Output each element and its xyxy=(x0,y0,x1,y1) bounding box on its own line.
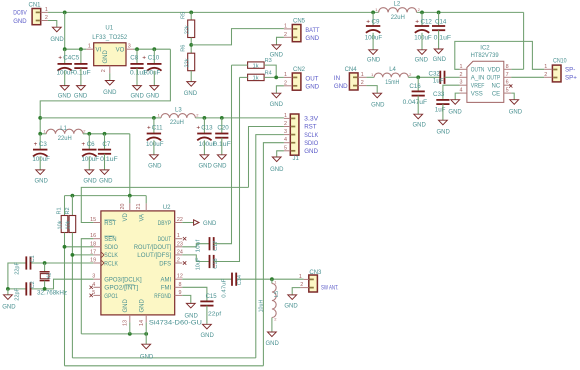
svg-text:LOUT/[DFS]: LOUT/[DFS] xyxy=(137,253,171,259)
svg-text:GND: GND xyxy=(99,179,113,185)
junction rail-R5 xyxy=(189,11,193,15)
svg-text:HT82V739: HT82V739 xyxy=(471,52,500,59)
wire L4 to C32 xyxy=(408,76,440,78)
junction X1 top xyxy=(43,261,47,265)
junction C4 xyxy=(63,47,67,51)
svg-text:1: 1 xyxy=(361,72,364,78)
junction rail-C9 xyxy=(371,11,375,15)
wire OUTP to CN10 xyxy=(511,76,544,78)
tuner U2 Si4734-D60-GU xyxy=(101,211,175,315)
svg-text:0.1uF: 0.1uF xyxy=(73,70,91,77)
pin U2-5 GPO1 xyxy=(93,294,101,296)
pin IC2-4 xyxy=(460,92,467,94)
wire down to U1 input xyxy=(64,12,66,49)
svg-text:2: 2 xyxy=(284,80,287,86)
svg-text:SP+: SP+ xyxy=(565,75,577,82)
junction C8 xyxy=(135,47,139,51)
wire SCLK bottom run xyxy=(72,357,255,359)
svg-text:DFS: DFS xyxy=(159,261,171,267)
resistor R6 xyxy=(188,53,195,70)
wire L1 out rail xyxy=(83,133,130,135)
ground C33 xyxy=(439,120,448,125)
svg-text:IN: IN xyxy=(334,75,340,82)
pin CN5-1 xyxy=(284,28,292,30)
ground DBYP right xyxy=(194,220,199,225)
svg-text:L3: L3 xyxy=(175,108,182,114)
svg-text:L5: L5 xyxy=(274,291,280,297)
svg-text:GND: GND xyxy=(284,304,298,310)
svg-text:15mH: 15mH xyxy=(385,79,399,86)
wire R4 right to CN2 xyxy=(264,76,284,78)
capacitor C7 xyxy=(104,134,106,150)
svg-text:CN2: CN2 xyxy=(293,67,306,73)
svg-text:C11: C11 xyxy=(152,124,163,131)
svg-text:GND: GND xyxy=(103,90,117,96)
svg-text:1: 1 xyxy=(177,233,180,239)
svg-text:C17: C17 xyxy=(213,241,219,251)
svg-text:C2: C2 xyxy=(30,281,36,288)
wire CN2-2 to gnd xyxy=(276,86,284,93)
svg-text:22: 22 xyxy=(177,217,183,223)
wire to gnd crystal xyxy=(7,289,9,295)
wire VA drop xyxy=(145,196,147,204)
junction VD xyxy=(128,194,132,198)
svg-text:GND: GND xyxy=(35,179,49,185)
svg-text:R2: R2 xyxy=(65,207,71,214)
svg-text:0.47uF: 0.47uF xyxy=(221,278,227,298)
svg-text:100uF: 100uF xyxy=(146,141,164,148)
pin CN3-1 xyxy=(304,278,309,280)
svg-text:+: + xyxy=(34,141,38,148)
svg-text:OUTN: OUTN xyxy=(471,68,485,74)
wire C32 to A_IN xyxy=(445,76,460,78)
svg-text:1k: 1k xyxy=(253,63,259,69)
capacitor C12 xyxy=(421,12,423,26)
wire C18 to R4 xyxy=(214,77,240,261)
capacitor C5 xyxy=(80,49,82,64)
wire SDIO from J1-4 xyxy=(263,143,284,366)
pin U2-9 RFGND xyxy=(175,294,183,296)
pin U2-18 SDIO xyxy=(93,246,101,248)
svg-text:14: 14 xyxy=(139,320,145,326)
capacitor C10 xyxy=(153,49,155,64)
svg-text:VI: VI xyxy=(96,47,102,53)
svg-text:8: 8 xyxy=(179,282,182,288)
pin U2-2 DFS xyxy=(175,262,183,264)
svg-text:4: 4 xyxy=(460,88,463,94)
junction R2 top xyxy=(71,194,75,198)
ground C7 xyxy=(100,170,109,175)
svg-text:GND: GND xyxy=(50,37,64,43)
svg-text:GND: GND xyxy=(201,333,215,339)
pin U2-21 VA xyxy=(145,203,147,211)
pin U2-4 GPO2 xyxy=(93,286,101,288)
wire 3.3V feed loop xyxy=(40,49,170,134)
wire VREF to C33 xyxy=(443,85,460,99)
pin U2-14 GND xyxy=(145,315,147,323)
svg-text:C3: C3 xyxy=(39,141,47,148)
pin CN3-2 xyxy=(300,287,308,289)
ground CN3 xyxy=(288,295,297,300)
svg-text:C5: C5 xyxy=(71,55,79,62)
junction C16 xyxy=(416,75,420,79)
svg-text:Si4734-D60-GU: Si4734-D60-GU xyxy=(149,319,202,326)
ground CN1 xyxy=(52,27,61,32)
capacitor C18 xyxy=(209,255,211,268)
junction rail-C14 xyxy=(437,11,441,15)
ground C3 xyxy=(36,170,45,175)
ground CE xyxy=(510,100,519,105)
wire CN5-2 to gnd xyxy=(277,37,284,45)
pin U1-3 xyxy=(126,48,134,50)
svg-text:GND: GND xyxy=(139,299,145,313)
svg-text:RCLK: RCLK xyxy=(104,261,118,267)
ground L5 xyxy=(268,332,277,337)
svg-text:GND: GND xyxy=(433,57,447,63)
svg-text:GND: GND xyxy=(213,164,227,170)
svg-text:SP-: SP- xyxy=(565,67,575,74)
svg-text:DBYP: DBYP xyxy=(158,221,172,227)
pin U2-3 GPO3 xyxy=(93,278,101,280)
junction rail-U1 xyxy=(63,11,67,15)
svg-text:GND: GND xyxy=(304,148,318,155)
wire to gnd arrow xyxy=(145,334,147,344)
capacitor C11 xyxy=(153,118,155,134)
svg-text:22uH: 22uH xyxy=(391,14,405,21)
wire CE to gnd xyxy=(511,93,514,100)
pin IC2-1 xyxy=(460,68,467,70)
wire U2 gnd bus xyxy=(81,333,146,335)
pin U1-2 xyxy=(109,66,111,74)
wire CN4-1 to L4 xyxy=(366,76,374,78)
svg-text:1: 1 xyxy=(284,23,287,29)
svg-text:R1: R1 xyxy=(57,207,63,214)
svg-text:10uF: 10uF xyxy=(195,257,201,270)
pin CN2-2 xyxy=(284,85,292,87)
svg-text:22k: 22k xyxy=(184,58,190,67)
svg-text:GND: GND xyxy=(305,84,319,91)
capacitor C16 xyxy=(412,90,425,92)
wire 3.3V node rail xyxy=(65,195,147,197)
pin U2-24 LOUT xyxy=(175,254,183,256)
svg-text:GND: GND xyxy=(184,91,198,97)
wire R2 bottom to SCLK xyxy=(71,233,73,358)
svg-text:C20: C20 xyxy=(217,124,229,131)
svg-text:22uH: 22uH xyxy=(58,135,72,142)
wire C17 to R3 xyxy=(214,65,232,244)
pin J1-5 xyxy=(284,150,290,152)
svg-text:C33: C33 xyxy=(433,91,445,98)
ground crystal xyxy=(4,295,13,300)
svg-text:CN4: CN4 xyxy=(345,67,358,73)
junction divider tap xyxy=(189,43,193,47)
wire R6 gnd xyxy=(190,71,192,82)
wire RST to U2 xyxy=(81,187,248,222)
pin CN4-2 xyxy=(358,85,366,87)
svg-text:GND: GND xyxy=(83,179,97,185)
svg-text:GND: GND xyxy=(146,94,160,100)
ground C16 xyxy=(414,114,423,119)
svg-text:1: 1 xyxy=(88,43,91,49)
resistor R3 xyxy=(248,62,265,68)
wire FMI to C15 xyxy=(182,287,207,300)
svg-text:GPO2/[INT]: GPO2/[INT] xyxy=(104,286,138,292)
svg-text:5: 5 xyxy=(506,88,509,94)
pin IC2-5 xyxy=(504,92,511,94)
wire U1 input rail xyxy=(65,48,87,50)
junction C11 xyxy=(152,116,156,120)
pin IC2-8 xyxy=(504,68,511,70)
junction L3 tap xyxy=(38,116,42,120)
svg-text:GND: GND xyxy=(74,94,88,100)
svg-text:SCLK: SCLK xyxy=(304,132,319,139)
svg-text:IC2: IC2 xyxy=(480,46,490,52)
wire SEN down xyxy=(81,239,93,334)
wire C16 down xyxy=(417,77,419,91)
pin U2-22 DBYP xyxy=(175,222,183,224)
svg-text:20: 20 xyxy=(120,204,126,210)
wire AMI line xyxy=(182,278,232,280)
svg-text:CN10: CN10 xyxy=(553,59,567,65)
svg-text:C15: C15 xyxy=(206,294,218,300)
svg-text:GND: GND xyxy=(270,167,284,173)
capacitor C4 xyxy=(64,49,66,64)
pin U2-13 GND xyxy=(129,315,131,323)
svg-text:21: 21 xyxy=(136,204,142,210)
ground R6 xyxy=(187,82,196,87)
svg-text:GND: GND xyxy=(148,164,162,170)
svg-text:RST: RST xyxy=(104,221,116,227)
svg-text:RFGND: RFGND xyxy=(154,294,171,300)
svg-text:13: 13 xyxy=(123,320,129,326)
svg-text:10k: 10k xyxy=(66,220,72,229)
svg-text:C12: C12 xyxy=(421,19,433,26)
svg-text:GND: GND xyxy=(334,83,348,90)
wire L3 rail right to J1 xyxy=(195,117,284,119)
junction C5 xyxy=(79,47,83,51)
svg-text:32.768kHz: 32.768kHz xyxy=(37,290,67,297)
svg-text:1: 1 xyxy=(284,72,287,78)
pin CN10-1 xyxy=(544,68,552,70)
ground CN2 xyxy=(272,93,281,98)
wire CN3-2 to gnd xyxy=(292,288,300,295)
svg-text:VSS: VSS xyxy=(471,91,483,97)
svg-text:2: 2 xyxy=(544,72,547,78)
svg-text:GND: GND xyxy=(367,57,381,63)
svg-text:GND: GND xyxy=(131,94,145,100)
pin CN1-1 xyxy=(41,11,48,13)
svg-text:LF33_TO252: LF33_TO252 xyxy=(92,34,128,41)
svg-text:GND: GND xyxy=(270,102,284,108)
wire R1 bottom to SDIO xyxy=(64,233,66,366)
inductor L3 xyxy=(161,114,195,118)
svg-text:9: 9 xyxy=(179,290,182,296)
wire tap to CN5 xyxy=(191,29,284,45)
capacitor C32 xyxy=(439,71,441,84)
wire VSS to gnd xyxy=(455,93,459,100)
svg-text:NC: NC xyxy=(492,83,501,89)
connector CN2 xyxy=(292,73,301,90)
svg-text:2: 2 xyxy=(460,72,463,78)
svg-text:C16: C16 xyxy=(409,83,421,90)
wire VDD to rail xyxy=(511,68,523,70)
ground CN4 xyxy=(373,93,382,98)
svg-text:GPO3/[DCLK]: GPO3/[DCLK] xyxy=(104,278,142,284)
svg-text:C8: C8 xyxy=(130,55,138,62)
svg-text:SCLK: SCLK xyxy=(104,253,118,259)
svg-text:R6: R6 xyxy=(180,45,186,52)
ground C8 xyxy=(133,86,142,91)
pin CN10-2 xyxy=(544,76,552,78)
inductor L1 xyxy=(40,133,46,135)
svg-text:SDIO: SDIO xyxy=(104,245,118,251)
svg-text:X1: X1 xyxy=(46,273,52,280)
svg-text:1: 1 xyxy=(544,64,547,70)
ground C9 xyxy=(369,50,378,55)
wire U1 gnd xyxy=(109,73,111,80)
wire L5 to gnd xyxy=(271,318,273,333)
svg-text:GND: GND xyxy=(199,164,213,170)
capacitor C33 xyxy=(436,99,449,101)
pin J1-4 xyxy=(284,142,290,144)
svg-text:BATT: BATT xyxy=(305,27,319,34)
svg-text:7: 7 xyxy=(506,72,509,78)
svg-text:0.1uF: 0.1uF xyxy=(100,156,118,163)
svg-text:GND: GND xyxy=(266,341,280,347)
svg-text:GND: GND xyxy=(448,109,462,115)
capacitor C15 xyxy=(200,300,213,302)
svg-text:GND: GND xyxy=(123,299,129,313)
junction L5 xyxy=(270,277,274,281)
svg-text:3.3V: 3.3V xyxy=(304,116,319,123)
wire DBYP to gnd xyxy=(182,222,193,224)
ground C12 xyxy=(418,50,427,55)
svg-text:SEN: SEN xyxy=(104,237,116,243)
svg-text:GPO1: GPO1 xyxy=(104,294,118,300)
capacitor C9 xyxy=(372,12,374,26)
wire 6V rail right of L2 xyxy=(417,11,524,13)
ground C5 xyxy=(77,86,86,91)
svg-text:2: 2 xyxy=(300,282,303,288)
svg-text:C18: C18 xyxy=(213,258,219,268)
capacitor C13 xyxy=(203,118,205,134)
wire ROUT to C17 xyxy=(182,244,209,247)
pin U2-23 ROUT xyxy=(175,246,183,248)
inductor L4 xyxy=(374,73,408,77)
svg-text:22pF: 22pF xyxy=(14,287,20,300)
wire SCLK to U2 xyxy=(72,254,93,256)
connector CN3 xyxy=(309,275,318,292)
capacitor C2 xyxy=(25,282,27,295)
wire C2 row xyxy=(8,288,26,290)
svg-text:GND: GND xyxy=(305,35,319,42)
capacitor C6 xyxy=(88,134,90,150)
connector CN4 xyxy=(349,73,358,90)
pin U2-16 SEN xyxy=(93,238,101,240)
svg-text:DOUT: DOUT xyxy=(158,237,172,243)
junction C10 xyxy=(152,47,156,51)
wire R1 top xyxy=(64,196,66,216)
wire RFGND to gnd xyxy=(182,295,191,303)
svg-text:FMI: FMI xyxy=(161,286,172,292)
svg-text:10k: 10k xyxy=(58,220,64,229)
wire SDIO to U2 xyxy=(65,246,94,248)
svg-text:C32: C32 xyxy=(429,71,441,78)
svg-text:C10: C10 xyxy=(148,55,160,62)
svg-text:C14: C14 xyxy=(435,19,447,26)
svg-text:2: 2 xyxy=(361,80,364,86)
svg-text:GND: GND xyxy=(185,314,199,320)
wire 3.3V down to U2 VD xyxy=(129,134,131,196)
wire main 6V rail xyxy=(48,11,379,13)
svg-text:22pF: 22pF xyxy=(14,262,20,275)
svg-text:1uF: 1uF xyxy=(435,107,446,114)
svg-text:GND: GND xyxy=(509,109,523,115)
junction C7 xyxy=(103,132,107,136)
svg-text:100uF: 100uF xyxy=(414,35,432,42)
ground VSS xyxy=(451,100,460,105)
ground C11 xyxy=(150,155,159,160)
svg-text:3: 3 xyxy=(128,43,131,49)
wire J1-5 to gnd xyxy=(277,151,284,157)
svg-text:100uF: 100uF xyxy=(32,156,50,163)
svg-text:1: 1 xyxy=(460,64,463,70)
wire VDD drop to IC2 pin8 xyxy=(523,12,525,69)
svg-text:C13: C13 xyxy=(201,124,213,131)
connector CN10 xyxy=(552,65,561,82)
wire R5-R6 xyxy=(190,38,192,54)
wire RCLK line xyxy=(31,262,94,264)
resistor R4 xyxy=(248,74,265,80)
pin IC2-6 xyxy=(504,84,511,86)
svg-text:1: 1 xyxy=(45,7,48,13)
regulator U1 LF33_TO252 xyxy=(94,43,126,66)
pin CN4-1 xyxy=(358,76,366,78)
svg-text:VA: VA xyxy=(139,214,145,222)
wire U1 output rail xyxy=(134,48,171,50)
svg-text:L4: L4 xyxy=(389,67,396,73)
svg-text:3: 3 xyxy=(284,129,287,135)
wire gnd pins down xyxy=(129,322,131,334)
junction C2 left xyxy=(6,287,10,291)
svg-text:2: 2 xyxy=(284,32,287,38)
svg-text:L2: L2 xyxy=(394,2,401,8)
wire OUTN loop xyxy=(455,41,544,69)
svg-text:22k: 22k xyxy=(184,25,190,34)
svg-text:1uF: 1uF xyxy=(433,78,444,85)
svg-text:OUT: OUT xyxy=(305,75,318,82)
svg-text:4: 4 xyxy=(92,282,95,288)
pin CN1-2 xyxy=(41,20,48,22)
svg-text:GND: GND xyxy=(415,57,429,63)
svg-text:3: 3 xyxy=(460,80,463,86)
svg-text:100uF: 100uF xyxy=(143,70,161,77)
svg-text:R5: R5 xyxy=(180,12,186,19)
wire R2 top xyxy=(71,196,73,216)
junction SCLK-R2 xyxy=(71,253,75,257)
svg-text:C6: C6 xyxy=(87,141,95,148)
svg-text:2: 2 xyxy=(177,258,180,264)
inductor L5 xyxy=(271,279,273,283)
capacitor C34 xyxy=(231,273,233,286)
junction gnd pin13 xyxy=(128,332,132,336)
capacitor C3 xyxy=(39,134,41,150)
svg-text:100uF: 100uF xyxy=(82,156,100,163)
junction gnd pin14 xyxy=(144,332,148,336)
svg-text:+: + xyxy=(81,141,85,148)
pin U2-17 SCLK xyxy=(93,254,101,256)
pin CN5-2 xyxy=(284,36,292,38)
